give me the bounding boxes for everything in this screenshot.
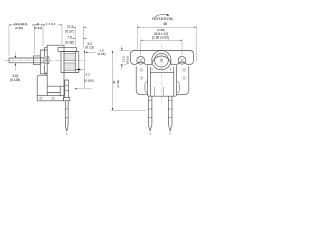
right mounting hole	[178, 56, 186, 64]
terminal pin left (front)	[148, 96, 152, 125]
svg-text:(0.53): (0.53)	[125, 56, 129, 64]
svg-text:48: 48	[163, 22, 167, 26]
dim 34.5 line	[141, 39, 182, 41]
terminal pin (side view)	[65, 80, 69, 98]
bobbin top flange	[58, 47, 77, 51]
bracket bar	[130, 51, 193, 65]
svg-text:(1.93): (1.93)	[116, 80, 120, 88]
svg-text:(1.36 ±0.02): (1.36 ±0.02)	[152, 36, 169, 40]
svg-text:(0.125): (0.125)	[10, 78, 20, 82]
svg-text:4.2: 4.2	[85, 72, 90, 76]
svg-text:(0.165): (0.165)	[84, 78, 94, 82]
svg-text:ROTATION: ROTATION	[152, 16, 172, 21]
shaft	[9, 58, 44, 63]
bearing bracket	[40, 48, 47, 75]
rotor boss circles	[152, 51, 171, 70]
svg-text:1 ± 0.2: 1 ± 0.2	[46, 22, 56, 26]
rivet diamonds	[140, 68, 186, 79]
left mounting hole	[137, 56, 145, 64]
dim arrowheads top	[9, 24, 85, 38]
black leader arrow to bobbin flange	[75, 69, 81, 71]
svg-text:7.9: 7.9	[67, 35, 72, 39]
svg-text:(0.06): (0.06)	[97, 52, 105, 56]
lamination stack (tall bar)	[47, 45, 64, 95]
frame plate holes	[40, 97, 42, 99]
front view centerline	[161, 45, 163, 105]
bobbin right flange (side view)	[61, 52, 79, 73]
bearing boss	[44, 57, 49, 64]
top dimension lines (left view)	[9, 25, 87, 56]
bearing hub	[34, 56, 41, 65]
svg-text:(0.28): (0.28)	[65, 40, 73, 44]
rotation arrow arc	[155, 14, 168, 16]
frame lower channel	[37, 75, 64, 101]
dim 13.5 (0.53) rotated	[122, 56, 130, 64]
coil hatch lower	[64, 63, 75, 70]
terminal pin right (front)	[168, 96, 172, 125]
vertical leader line right of coil	[83, 50, 85, 88]
svg-text:(0.37): (0.37)	[65, 30, 73, 34]
centerline shaft axis	[4, 59, 86, 61]
coil hatch upper	[64, 54, 75, 61]
bracket side skirts	[136, 66, 147, 94]
svg-text:11.2: 11.2	[67, 24, 73, 28]
svg-text:(0.43): (0.43)	[34, 26, 42, 30]
bobbin front	[148, 65, 177, 96]
svg-text:(0.13): (0.13)	[85, 45, 93, 49]
shaft diameter dimension	[15, 52, 17, 71]
svg-text:(0.90): (0.90)	[15, 26, 23, 30]
dim 49 (1.93) rotated	[112, 80, 120, 88]
